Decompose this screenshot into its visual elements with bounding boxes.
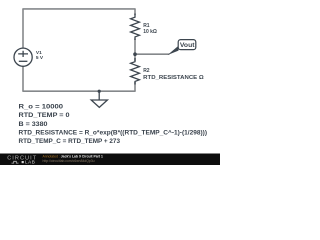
voltage source V1: [14, 48, 32, 66]
node junction dot: [133, 52, 137, 56]
wire bottom horizontal: [22, 90, 135, 92]
svg-text:5 V: 5 V: [36, 55, 44, 61]
svg-text:R_o = 10000: R_o = 10000: [19, 104, 64, 111]
svg-text:RTD_TEMP_C = RTD_TEMP + 273: RTD_TEMP_C = RTD_TEMP + 273: [19, 138, 121, 145]
wire left vertical: [22, 9, 24, 49]
resistor R1: [131, 14, 140, 41]
svg-text:R2: R2: [143, 68, 150, 74]
svg-text:Vout: Vout: [180, 43, 195, 49]
wire node to Vout flag: [135, 53, 170, 55]
ground: [91, 91, 107, 107]
wire node to R2 top: [134, 54, 136, 61]
wire V1 bottom: [22, 66, 24, 91]
annotation parameter text: [19, 104, 207, 145]
footer bar: [0, 154, 220, 166]
label V1 value: [36, 50, 44, 61]
svg-text:http://circuitlab.com/c6wn84dQ: http://circuitlab.com/c6wn84dQp3u: [43, 159, 95, 163]
resistor R2: [131, 58, 140, 85]
label R2 value: [143, 68, 204, 81]
svg-text:RTD_RESISTANCE = R_o*exp(B*((R: RTD_RESISTANCE = R_o*exp(B*((RTD_TEMP_C^…: [19, 128, 207, 136]
svg-text:10 kΩ: 10 kΩ: [143, 29, 157, 35]
footer CircuitLab logo: [7, 156, 37, 165]
svg-text:V1: V1: [36, 50, 42, 56]
wire top horizontal: [22, 8, 135, 10]
svg-text:RTD_TEMP = 0: RTD_TEMP = 0: [19, 112, 70, 119]
wire R1 bottom to node: [134, 39, 136, 55]
ground junction dot: [98, 90, 101, 93]
svg-text:RTD_RESISTANCE Ω: RTD_RESISTANCE Ω: [143, 75, 204, 81]
wire R2 bottom: [134, 82, 136, 91]
svg-text:B = 3380: B = 3380: [19, 121, 48, 128]
label R1 value: [143, 23, 157, 35]
wire R1 top stub: [134, 9, 136, 15]
svg-text:LAB: LAB: [25, 160, 35, 165]
Vout flag: [168, 40, 196, 55]
